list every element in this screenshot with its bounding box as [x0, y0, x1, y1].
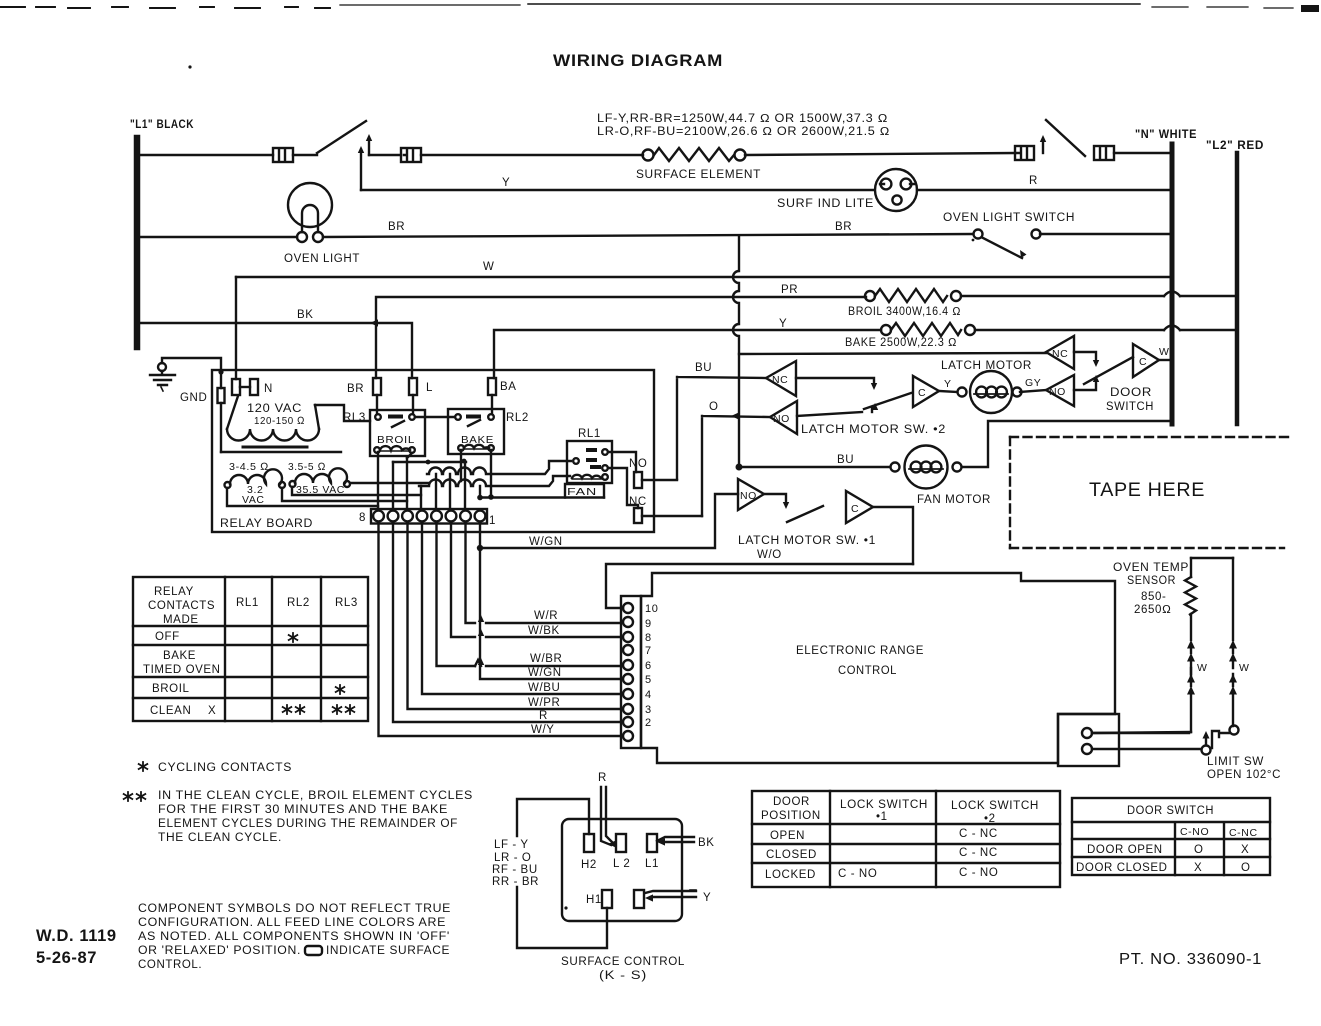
- wire RL1 to NC terminal: [608, 468, 638, 508]
- svg-text:W: W: [1239, 662, 1250, 674]
- svg-text:LF-Y,RR-BR=1250W,44.7 Ω OR 150: LF-Y,RR-BR=1250W,44.7 Ω OR 1500W,37.3 Ω: [597, 113, 888, 125]
- label LF-Y LR-O RF-BU RR-BR: [492, 839, 539, 888]
- wire L1 to fuse: [140, 154, 273, 156]
- coil tap wires: [227, 483, 428, 506]
- wire W: [236, 276, 1170, 278]
- svg-text:FAN MOTOR: FAN MOTOR: [917, 494, 991, 506]
- svg-text:C-NC: C-NC: [1229, 827, 1258, 839]
- svg-text:X: X: [208, 705, 216, 717]
- wire NC to contact arrow: [1074, 352, 1099, 367]
- svg-text:W: W: [483, 261, 494, 273]
- svg-text:3: 3: [645, 704, 652, 716]
- limit switch: [1202, 731, 1230, 755]
- RL2 contacts: [455, 395, 494, 426]
- svg-text:ELECTRONIC RANGE: ELECTRONIC RANGE: [796, 645, 924, 657]
- junction dot BU fan: [736, 464, 743, 471]
- svg-text:X: X: [1241, 844, 1249, 856]
- wire BU to fan motor: [739, 466, 890, 468]
- wire NO to arrow latch sw1: [764, 494, 789, 509]
- wire RL1 to NO terminal: [608, 452, 636, 472]
- svg-text:FAN: FAN: [567, 486, 597, 498]
- gnd terminal: [218, 388, 225, 452]
- resistor broil element: [865, 289, 961, 302]
- svg-text:DOOR: DOOR: [773, 796, 810, 808]
- svg-text:H1: H1: [586, 894, 602, 906]
- svg-text:OPEN 102°C: OPEN 102°C: [1207, 769, 1281, 781]
- svg-text:SURF IND LITE: SURF IND LITE: [777, 198, 874, 210]
- transformer 120VAC winding: [227, 396, 319, 441]
- wire RL3 to RL2 contact: [415, 416, 455, 418]
- svg-text:"L1" BLACK: "L1" BLACK: [130, 119, 194, 131]
- svg-text:SURFACE CONTROL: SURFACE CONTROL: [561, 956, 685, 968]
- svg-text:CONTROL.: CONTROL.: [138, 959, 202, 971]
- wire fuse to switch: [293, 154, 317, 156]
- wire switch to N bus: [1040, 233, 1170, 235]
- triangle NC door switch: [1046, 336, 1074, 369]
- N bus: [1170, 144, 1175, 424]
- switch arrow stub top right: [1040, 135, 1046, 153]
- svg-text:BROIL 3400W,16.4 Ω: BROIL 3400W,16.4 Ω: [848, 306, 961, 318]
- relay contacts table rows: [143, 631, 221, 717]
- door switch table: [1072, 798, 1270, 875]
- svg-text:H2: H2: [581, 859, 597, 871]
- svg-text:3.5-5 Ω: 3.5-5 Ω: [288, 461, 326, 473]
- svg-text:BK: BK: [297, 309, 314, 321]
- svg-text:LATCH MOTOR SW. •1: LATCH MOTOR SW. •1: [738, 535, 876, 547]
- wire surface element to H2: [745, 153, 1015, 155]
- svg-text:Y: Y: [779, 318, 787, 330]
- relay RL3 broil box: [370, 410, 425, 456]
- svg-text:W/R: W/R: [534, 610, 558, 622]
- braid row 1: [427, 461, 571, 474]
- svg-text:O: O: [709, 401, 719, 413]
- svg-text:9: 9: [645, 618, 652, 630]
- svg-text:LATCH MOTOR: LATCH MOTOR: [941, 360, 1032, 372]
- svg-text:SURFACE ELEMENT: SURFACE ELEMENT: [636, 169, 761, 181]
- connector wire pin4 to control 6: [437, 523, 622, 666]
- L1 bus: [134, 138, 141, 347]
- latch motor: [958, 371, 1022, 413]
- svg-text:CLOSED: CLOSED: [766, 849, 817, 861]
- junction arrow on BK: [370, 319, 378, 326]
- svg-text:NO: NO: [773, 413, 790, 425]
- svg-text:C: C: [918, 387, 926, 399]
- wire H1 to surface element: [421, 154, 643, 156]
- svg-text:"L2" RED: "L2" RED: [1206, 140, 1264, 152]
- svg-text:C - NO: C - NO: [959, 867, 998, 879]
- wire Y (surface lite): [361, 189, 874, 191]
- wire NO terminal to BU riser: [642, 479, 677, 481]
- svg-text:N: N: [264, 383, 273, 395]
- sensor connector box: [1058, 714, 1119, 766]
- braid verticals: [378, 450, 491, 510]
- wire H2 loop: [517, 799, 607, 948]
- NC terminal: [634, 508, 642, 523]
- svg-text:NC: NC: [1052, 348, 1068, 360]
- svg-text:7: 7: [645, 645, 652, 657]
- cycling star marks in table: [283, 633, 355, 714]
- svg-text:Y: Y: [703, 892, 711, 904]
- transformer core line: [221, 451, 341, 453]
- svg-text:AS NOTED. ALL COMPONENTS SHOWN: AS NOTED. ALL COMPONENTS SHOWN IN 'OFF': [138, 931, 450, 943]
- svg-text:OVEN LIGHT: OVEN LIGHT: [284, 253, 360, 265]
- svg-text:LF - Y: LF - Y: [494, 839, 529, 851]
- svg-text:LR - O: LR - O: [494, 852, 531, 864]
- svg-text:NO: NO: [629, 458, 647, 470]
- svg-text:LOCKED: LOCKED: [765, 869, 816, 881]
- svg-text:PT. NO. 336090-1: PT. NO. 336090-1: [1119, 951, 1262, 968]
- svg-text:W/Y: W/Y: [531, 724, 555, 736]
- hop PR over N bus: [1164, 292, 1180, 297]
- door position table header: [761, 796, 1039, 825]
- relay RL1 box: [567, 441, 612, 483]
- triangle NO latch sw2: [770, 401, 797, 434]
- wire BU latch: [677, 377, 766, 479]
- RL1 contacts: [573, 448, 608, 471]
- relay RL2 bake box: [448, 409, 504, 454]
- braid row 2: [419, 476, 570, 486]
- wire O latch: [702, 416, 770, 516]
- connector wire pin1 to control 5: [480, 523, 621, 679]
- junction dot bake coil: [488, 494, 494, 500]
- svg-text:RELAY: RELAY: [154, 586, 194, 598]
- triangle C latch sw2: [913, 376, 939, 407]
- wire Y bake: [494, 330, 1235, 378]
- contact arrow stub 1: [358, 146, 364, 190]
- svg-text:NO: NO: [1049, 386, 1066, 398]
- stray dot: [564, 906, 567, 909]
- oven light lamp: [288, 183, 332, 232]
- triangle NO latch sw1: [738, 479, 764, 510]
- svg-text:RL1: RL1: [236, 597, 259, 609]
- resistor bake element: [881, 323, 975, 336]
- wire BK double surface: [657, 837, 694, 846]
- N terminal: [232, 379, 258, 395]
- L2 bus: [1235, 153, 1240, 424]
- wire R double to surface control: [601, 787, 616, 848]
- wire L2 box to N bus: [1114, 152, 1170, 154]
- svg-text:CLEAN: CLEAN: [150, 705, 191, 717]
- svg-text:NO: NO: [740, 490, 757, 502]
- svg-text:POSITION: POSITION: [761, 810, 821, 822]
- svg-text:DOOR: DOOR: [1110, 387, 1152, 399]
- transformer core bar: [243, 446, 307, 449]
- svg-text:O: O: [1241, 862, 1251, 874]
- svg-text:W/GN: W/GN: [528, 667, 562, 679]
- svg-text:C - NC: C - NC: [959, 828, 998, 840]
- svg-text:CYCLING CONTACTS: CYCLING CONTACTS: [158, 762, 292, 774]
- svg-text:TIMED OVEN: TIMED OVEN: [143, 664, 221, 676]
- svg-text:3-4.5 Ω: 3-4.5 Ω: [229, 461, 269, 473]
- connector wire pin7 to control 2: [393, 523, 621, 722]
- wire box to limit switch: [1092, 748, 1201, 750]
- note component symbols: [138, 903, 451, 971]
- note clean cycle: [124, 792, 146, 801]
- sensor box terminals: [1082, 728, 1092, 754]
- svg-text:DOOR SWITCH: DOOR SWITCH: [1127, 805, 1214, 817]
- svg-text:5: 5: [645, 674, 652, 686]
- electronic range control board outline: [641, 573, 1115, 763]
- wire NO to contact arrow: [1074, 375, 1099, 390]
- relay board box: [212, 370, 654, 532]
- terminal BA: [488, 378, 496, 395]
- junction arrow on O crossing: [731, 412, 739, 419]
- svg-text:NC: NC: [629, 496, 647, 508]
- svg-text:•1: •1: [876, 811, 888, 823]
- svg-text:BROIL: BROIL: [152, 683, 190, 695]
- connector wire pin8 to control 1: [379, 523, 622, 736]
- wire W/GN latch: [480, 494, 738, 548]
- svg-text:RL3: RL3: [343, 412, 366, 424]
- svg-text:120 VAC: 120 VAC: [247, 403, 302, 415]
- fuse box H2: [1015, 146, 1034, 160]
- svg-text:FOR THE FIRST 30 MINUTES AND T: FOR THE FIRST 30 MINUTES AND THE BAKE: [158, 804, 448, 816]
- svg-text:1: 1: [489, 515, 496, 527]
- triangle C door switch: [1133, 344, 1159, 377]
- svg-text:W/GN: W/GN: [529, 536, 563, 548]
- svg-text:LR-O,RF-BU=2100W,26.6 Ω OR 260: LR-O,RF-BU=2100W,26.6 Ω OR 2600W,21.5 Ω: [597, 126, 890, 138]
- svg-text:8: 8: [645, 632, 652, 644]
- svg-text:W/PR: W/PR: [528, 697, 560, 709]
- terminal H2: [584, 834, 594, 852]
- wire fan motor to N bus: [962, 421, 1170, 467]
- svg-text:C - NO: C - NO: [838, 868, 877, 880]
- svg-text:W/O: W/O: [757, 549, 782, 561]
- svg-text:LOCK SWITCH: LOCK SWITCH: [840, 799, 928, 811]
- svg-text:SWITCH: SWITCH: [1106, 401, 1154, 413]
- svg-text:BR: BR: [835, 221, 852, 233]
- svg-text:850-: 850-: [1141, 591, 1166, 603]
- limit switch right terminal: [1230, 726, 1239, 735]
- svg-text:LOCK SWITCH: LOCK SWITCH: [951, 800, 1039, 812]
- svg-text:TAPE HERE: TAPE HERE: [1089, 480, 1205, 501]
- svg-text:OR 'RELAXED' POSITION.: OR 'RELAXED' POSITION.: [138, 945, 301, 957]
- svg-text:BU: BU: [837, 454, 854, 466]
- svg-text:VAC: VAC: [242, 494, 265, 506]
- svg-text:LATCH MOTOR SW. •2: LATCH MOTOR SW. •2: [801, 424, 946, 436]
- surface control indicator symbol: [305, 946, 322, 955]
- hop bake wire over N bus: [1164, 326, 1180, 331]
- svg-text:2650Ω: 2650Ω: [1134, 604, 1171, 616]
- sensor resistor vertical: [1185, 558, 1196, 640]
- wire to door switch NC: [739, 353, 1046, 354]
- wire W/O: [606, 564, 913, 608]
- svg-text:RL1: RL1: [578, 428, 601, 440]
- svg-text:"N" WHITE: "N" WHITE: [1135, 129, 1197, 141]
- svg-text:BR: BR: [347, 383, 364, 395]
- sensor loop top: [1191, 557, 1233, 559]
- RL1 coil: [572, 474, 608, 480]
- svg-text:BU: BU: [695, 362, 712, 374]
- svg-text:(K - S): (K - S): [599, 970, 647, 982]
- wire ground to relay board: [162, 358, 221, 388]
- RL3 coil: [374, 446, 415, 453]
- svg-text:COMPONENT SYMBOLS DO NOT REFLE: COMPONENT SYMBOLS DO NOT REFLECT TRUE: [138, 903, 451, 915]
- svg-text:GY: GY: [1025, 377, 1041, 389]
- svg-text:BROIL: BROIL: [377, 434, 415, 446]
- svg-text:DOOR OPEN: DOOR OPEN: [1087, 844, 1163, 856]
- coil 3.2 VAC: [225, 469, 286, 488]
- svg-text:RR - BR: RR - BR: [492, 876, 539, 888]
- wire BR from L1: [140, 236, 297, 238]
- door position table: [752, 791, 1060, 887]
- wire NC to arrow latch sw2: [796, 378, 877, 390]
- RL2 coil: [458, 445, 494, 451]
- contact arrow stub 2: [366, 134, 372, 155]
- svg-text:6: 6: [645, 660, 652, 672]
- svg-text:OVEN TEMP: OVEN TEMP: [1113, 562, 1189, 574]
- wire BK: [140, 323, 412, 378]
- svg-text:C: C: [1139, 356, 1147, 368]
- wire Y double surface: [645, 890, 696, 902]
- NO terminal: [634, 472, 642, 488]
- sensor wire connector arrows left: [1187, 640, 1195, 732]
- fuse box L1 (surface feed): [273, 148, 293, 162]
- wire PR: [376, 296, 1235, 378]
- svg-text:RF - BU: RF - BU: [492, 864, 538, 876]
- triangle NC latch sw2: [766, 361, 796, 396]
- wire C to W/O riser: [873, 507, 913, 564]
- svg-text:BAKE 2500W,22.3 Ω: BAKE 2500W,22.3 Ω: [845, 337, 957, 349]
- svg-text:R: R: [598, 772, 607, 784]
- svg-text:Y: Y: [502, 177, 510, 189]
- svg-text:LIMIT SW: LIMIT SW: [1207, 756, 1264, 768]
- junction dot W/GN: [477, 545, 483, 551]
- terminal L2: [616, 834, 626, 852]
- svg-text:W: W: [1159, 346, 1170, 358]
- triangle C latch sw1: [846, 491, 873, 523]
- junction dot board edge: [218, 369, 223, 374]
- sensor wire right with arrows: [1229, 558, 1237, 726]
- terminal BR: [373, 378, 381, 395]
- fuse box L2: [1094, 146, 1114, 160]
- svg-text:CONTROL: CONTROL: [838, 665, 897, 677]
- terminal L: [409, 378, 417, 395]
- switch blade top right: [1046, 120, 1085, 156]
- svg-text:L: L: [426, 382, 433, 394]
- svg-text:GND: GND: [180, 392, 207, 404]
- svg-text:10: 10: [645, 603, 658, 615]
- svg-text:DOOR CLOSED: DOOR CLOSED: [1076, 862, 1168, 874]
- wire to fuse H1: [369, 154, 401, 156]
- blade latch sw1: [787, 506, 823, 522]
- svg-text:W/BK: W/BK: [528, 625, 560, 637]
- wire C to N bus, label W: [1159, 359, 1170, 361]
- wire latch motor to door NO, label GY: [1020, 390, 1046, 392]
- svg-text:RELAY BOARD: RELAY BOARD: [220, 518, 313, 530]
- svg-text:•2: •2: [984, 813, 996, 825]
- svg-text:OPEN: OPEN: [770, 830, 805, 842]
- oven light switch: [974, 230, 1041, 259]
- svg-text:W: W: [1197, 662, 1208, 674]
- svg-text:4: 4: [645, 689, 652, 701]
- svg-text:O: O: [1194, 844, 1204, 856]
- wire R to N bus: [917, 189, 1170, 191]
- FAN label box: [565, 484, 604, 498]
- svg-text:RL2: RL2: [506, 412, 529, 424]
- svg-text:NC: NC: [772, 374, 788, 386]
- svg-text:CONTACTS: CONTACTS: [148, 600, 215, 612]
- oven light terminals: [297, 232, 323, 242]
- svg-text:5-26-87: 5-26-87: [36, 949, 97, 967]
- RL3 contacts: [375, 395, 415, 427]
- fuse box H1: [401, 148, 421, 162]
- control pins: [623, 603, 633, 741]
- connector wire pin2 to control 9: [466, 523, 622, 623]
- blade latch sw2: [864, 393, 911, 409]
- terminal Y surface: [634, 890, 644, 908]
- svg-text:OVEN LIGHT SWITCH: OVEN LIGHT SWITCH: [943, 212, 1075, 224]
- vertical feed wire with hops: [733, 236, 739, 467]
- svg-text:MADE: MADE: [163, 614, 199, 626]
- note cycling contacts: [139, 762, 148, 771]
- svg-text:PR: PR: [781, 284, 798, 296]
- coil 35.5 VAC: [290, 468, 351, 487]
- svg-text:SENSOR: SENSOR: [1127, 575, 1176, 587]
- svg-text:C - NC: C - NC: [959, 847, 998, 859]
- wire C to latch motor, label Y: [939, 391, 957, 392]
- connector wire pin3 to control 8: [451, 523, 621, 637]
- svg-text:R: R: [539, 710, 548, 722]
- svg-text:Y: Y: [944, 378, 952, 390]
- svg-text:L 2: L 2: [613, 858, 630, 870]
- svg-text:W/BU: W/BU: [528, 682, 560, 694]
- svg-text:RL3: RL3: [335, 597, 358, 609]
- svg-text:IN THE CLEAN CYCLE, BROIL ELEM: IN THE CLEAN CYCLE, BROIL ELEMENT CYCLES: [158, 790, 473, 802]
- svg-text:WIRING DIAGRAM: WIRING DIAGRAM: [553, 52, 723, 70]
- svg-text:CONFIGURATION. ALL FEED LINE C: CONFIGURATION. ALL FEED LINE COLORS ARE: [138, 917, 446, 929]
- door switch table text: [1076, 805, 1258, 874]
- relay contacts table header: [148, 586, 358, 626]
- svg-text:C: C: [851, 503, 859, 515]
- svg-text:RL2: RL2: [287, 597, 310, 609]
- scan noise top edge: [0, 4, 1319, 69]
- wire W feed down to N terminal: [235, 277, 237, 379]
- svg-text:THE CLEAN CYCLE.: THE CLEAN CYCLE.: [158, 832, 282, 844]
- terminal L1: [647, 834, 657, 852]
- svg-text:L1: L1: [645, 858, 659, 870]
- svg-text:ELEMENT CYCLES DURING THE REMA: ELEMENT CYCLES DURING THE REMAINDER OF: [158, 818, 458, 830]
- svg-text:R: R: [1029, 175, 1038, 187]
- svg-text:2: 2: [645, 717, 652, 729]
- triangle NO door switch: [1046, 375, 1074, 406]
- svg-text:OFF: OFF: [155, 631, 180, 643]
- svg-text:8: 8: [359, 512, 366, 524]
- relay contacts table: [133, 577, 368, 721]
- connector wire pin6 to control 3: [408, 523, 622, 709]
- surf ind lite lamp: [875, 169, 917, 211]
- wire transformer to RL3: [315, 405, 370, 421]
- switch blade surface element: [317, 121, 366, 153]
- tape here dashed box: [1010, 437, 1288, 548]
- door switch blade: [1084, 357, 1133, 384]
- surface control box: [562, 819, 682, 921]
- connector wire pin5 to control 4: [422, 523, 621, 694]
- svg-text:BA: BA: [500, 381, 517, 393]
- door position table rows: [765, 828, 998, 881]
- svg-text:X: X: [1194, 862, 1202, 874]
- svg-text:120-150 Ω: 120-150 Ω: [254, 415, 305, 427]
- fan motor: [891, 446, 962, 489]
- resistor surface element: [643, 148, 746, 161]
- wire box to sensor: [1092, 732, 1189, 734]
- wire BR to switch: [323, 234, 973, 237]
- wire NC terminal to O riser: [642, 515, 702, 517]
- braid cross wire: [393, 459, 466, 465]
- relay board connector strip: [371, 509, 487, 524]
- wire sensor left bottom: [1092, 732, 1191, 733]
- junction dot pin1: [477, 495, 483, 501]
